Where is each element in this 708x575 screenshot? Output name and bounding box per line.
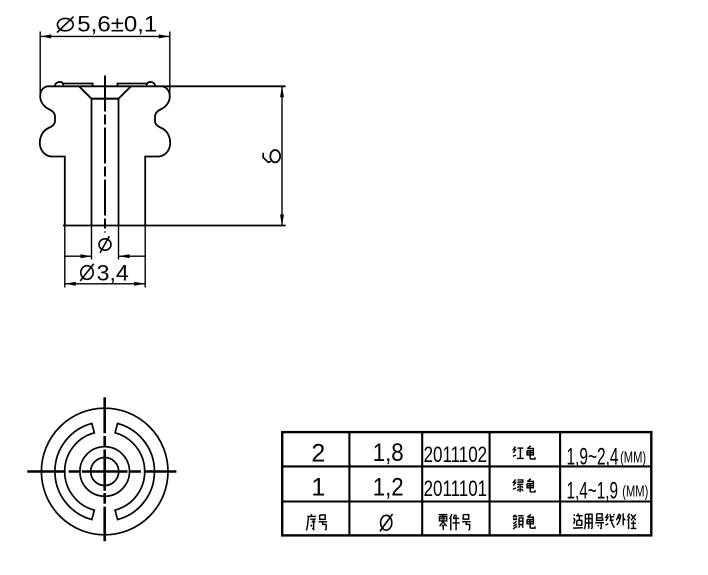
crosshair vertical <box>103 397 106 541</box>
slot ring right arc <box>115 423 154 519</box>
svg-text:1,9~2,4: 1,9~2,4 <box>567 445 619 471</box>
grommet outline right side <box>145 86 170 225</box>
hole wall right <box>118 99 120 226</box>
svg-text:1: 1 <box>311 473 325 501</box>
top-left bump <box>55 82 63 86</box>
dim text 6 (rotated) <box>263 150 280 162</box>
middle circle <box>80 447 130 497</box>
crosshair horizontal <box>27 470 176 473</box>
grommet outline left side <box>40 86 65 225</box>
centerline of section <box>104 76 106 233</box>
inner circle <box>91 458 119 486</box>
label hongse (red) row1 <box>513 447 524 459</box>
svg-text:1,4~1,9: 1,4~1,9 <box>567 478 619 504</box>
phi symbol <box>57 18 73 30</box>
outer circle <box>41 408 168 535</box>
svg-text:(MM): (MM) <box>622 483 648 500</box>
top-right bump <box>147 82 155 86</box>
dim line hole dia (two outside segments) <box>65 255 92 257</box>
arrow dia3.4 right <box>134 282 145 286</box>
cone bottom edge <box>92 98 119 100</box>
right ridge <box>117 84 147 87</box>
ext line left (dia 5.6) <box>39 32 41 100</box>
svg-text:3,4: 3,4 <box>97 260 129 285</box>
label lvse (green) row2 <box>513 479 523 492</box>
arrow hole-right <box>119 254 130 258</box>
countersink cone <box>79 87 131 99</box>
ext lines dia 3.4 <box>64 226 66 288</box>
label xuhao (serial no.) <box>306 514 315 530</box>
dim line dia 5.6 <box>40 35 170 37</box>
bottom face line <box>63 225 286 227</box>
arrow 6 bottom <box>280 215 284 226</box>
dim text hole dia (phi) <box>99 236 111 253</box>
table row 3: phi symbol <box>380 514 393 531</box>
arrow left dia5.6 <box>40 34 51 38</box>
dim text dia3.4 <box>80 260 129 285</box>
ext lines hole dia <box>91 226 93 260</box>
label yanse (color) row3 <box>513 515 524 530</box>
table outer border <box>282 432 651 535</box>
top face line <box>48 85 286 87</box>
left ridge <box>63 84 93 87</box>
svg-text:2: 2 <box>311 440 325 468</box>
svg-text:1,8: 1,8 <box>373 439 404 467</box>
arrow right dia5.6 <box>159 34 170 38</box>
ext line right (dia 5.6) <box>169 32 171 100</box>
svg-text:2011101: 2011101 <box>424 476 488 501</box>
dim line 6 (vertical) <box>281 86 283 225</box>
dim line dia 3.4 <box>65 283 145 285</box>
svg-text:1,2: 1,2 <box>373 473 404 501</box>
label shiyong daoxian waijing (applicable wire OD) <box>573 513 583 528</box>
Chinese labels drawn as strokes <box>306 446 636 531</box>
label lingjianhao (part no.) <box>439 515 448 530</box>
dim text dia5.6 <box>57 12 157 37</box>
svg-text:(MM): (MM) <box>620 450 646 467</box>
table inner grid lines <box>282 432 651 535</box>
svg-text:5,6±0,1: 5,6±0,1 <box>77 12 157 37</box>
hole wall left <box>91 99 93 226</box>
arrow 6 top <box>280 86 284 97</box>
slot ring left arc <box>55 423 94 519</box>
svg-text:2011102: 2011102 <box>424 442 488 467</box>
arrow hole-left <box>81 254 92 258</box>
arrow dia3.4 left <box>65 282 76 286</box>
